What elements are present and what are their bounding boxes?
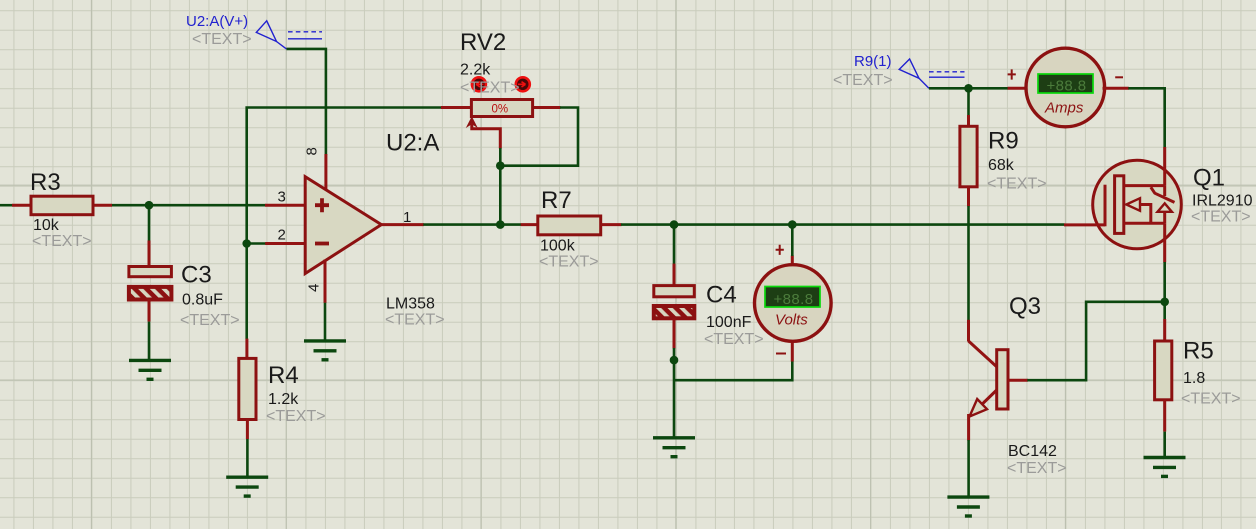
Q3 collector lead [967,320,970,342]
Q1 gate lead [1064,223,1105,226]
voltmeter VM1 [755,265,832,342]
wire: C3 to ground [148,322,151,361]
Q1 drain lead [1163,147,1166,186]
voltmeter digital display +88.8 [765,287,820,308]
wire: RV2 right terminal loop down to wiper node [500,108,578,166]
transistor Q3 BC142 [969,293,1067,477]
svg-text:R4: R4 [268,362,299,389]
wire: voltmeter minus branch [674,361,792,380]
resistor R3 [12,169,112,250]
resistor R9 [960,115,1047,206]
svg-text:R5: R5 [1183,338,1214,365]
wire: ammeter to Q1 drain [1128,88,1164,147]
potentiometer RV2 [441,29,561,149]
Q1 source contact line [1124,222,1165,225]
ground (C4) [653,438,695,457]
Q1 channel bar [1115,176,1124,234]
Q3 base lead [1008,379,1028,382]
svg-text:<TEXT>: <TEXT> [180,312,240,329]
wire: C4 to ground [673,348,676,438]
svg-text:R9(1): R9(1) [854,53,892,70]
svg-text:+88.8: +88.8 [774,291,814,308]
svg-text:100nF: 100nF [706,314,752,331]
wire: node down to R4 [245,244,248,340]
Q1 drain contact line [1124,184,1165,187]
svg-text:100k: 100k [540,238,576,255]
svg-text:<TEXT>: <TEXT> [1191,209,1251,226]
junction: output/wiper node [496,220,505,229]
resistor R4 [239,339,326,439]
capacitor C4 [654,264,764,349]
op-amp pin 4 (GND) stub [324,260,327,303]
svg-text:Amps: Amps [1044,100,1084,117]
svg-text:4: 4 [306,284,323,292]
Q1 body diode [1163,186,1166,196]
ammeter AM1 [1026,48,1105,127]
svg-text:U2:A(V+): U2:A(V+) [186,13,248,30]
voltmeter lead bottom [791,340,794,362]
voltmeter plus marker [776,245,784,255]
non-inverting input + mark [315,198,329,212]
ammeter minus marker [1115,76,1123,78]
svg-text:Q1: Q1 [1193,165,1225,192]
svg-text:IRL2910: IRL2910 [1192,193,1253,210]
inverting input - mark [315,242,329,246]
svg-text:Volts: Volts [775,312,808,329]
junction: wiper node [496,161,505,170]
Q1 gate electrode [1104,185,1107,227]
op-amp U2:A pin 3 lead [265,204,305,207]
wire: node down to C3 [148,205,151,241]
junction: Q1 source / R5 / Q3 base node [1160,298,1169,307]
ammeter plus marker [1008,69,1016,79]
op-amp U2:A pin 2 lead [265,242,305,245]
svg-text:RV2: RV2 [460,29,506,56]
svg-text:<TEXT>: <TEXT> [704,331,764,348]
voltmeter lead top [791,256,794,267]
svg-text:Q3: Q3 [1009,293,1041,320]
wire: input net to R3 [0,204,13,207]
wire: R9 to Q3 collector (crosses gate rail) [967,206,970,320]
wire: op-amp pin 4 to ground [324,303,327,341]
svg-text:<TEXT>: <TEXT> [987,176,1047,193]
svg-text:10k: 10k [33,217,60,234]
Q1 substrate arrow [1126,198,1140,211]
svg-text:R7: R7 [541,187,572,214]
wire: node to pin 2 [247,242,266,245]
svg-text:C3: C3 [181,262,212,289]
transistor Q1 IRL2910 [1064,147,1253,263]
ammeter body circle [1026,48,1105,127]
svg-text:68k: 68k [988,157,1015,174]
ammeter + lead [1008,87,1028,90]
capacitor C3 [129,241,240,330]
svg-text:<TEXT>: <TEXT> [385,312,445,329]
svg-text:8: 8 [304,147,321,155]
junction: C4 node [670,220,679,229]
power flag U2:A(V+) [186,13,322,49]
ammeter - lead [1103,87,1129,90]
RV2 increment button [516,77,530,91]
svg-text:1: 1 [403,209,411,226]
svg-text:U2:A: U2:A [386,130,439,157]
Q1 envelope circle [1093,160,1182,249]
svg-text:2: 2 [278,227,286,244]
svg-text:<TEXT>: <TEXT> [1007,460,1067,477]
op-amp output pin 1 lead [381,223,423,226]
Q1 source lead [1163,223,1166,262]
svg-text:<TEXT>: <TEXT> [32,233,92,250]
wire: feedback riser pin2 node up and right to RV2 [247,108,442,244]
wire: V+ flag to op-amp pin 8 [286,49,326,155]
svg-text:BC142: BC142 [1008,443,1057,460]
wire: output to R7 [423,223,521,226]
svg-text:<TEXT>: <TEXT> [833,72,893,89]
power flag R9(1) [833,53,965,89]
svg-text:<TEXT>: <TEXT> [266,408,326,425]
RV2 decrement button [472,77,486,91]
resistor R7 [521,187,622,271]
svg-text:3: 3 [278,189,286,206]
svg-text:1.8: 1.8 [1183,370,1205,387]
ground (C3) [129,360,171,379]
svg-text:2.2k: 2.2k [460,62,491,79]
svg-text:<TEXT>: <TEXT> [1181,391,1241,408]
op-amp body triangle [305,177,381,274]
svg-text:R9: R9 [988,128,1019,155]
wire: Q3 emitter to ground [967,440,970,497]
svg-text:+88.8: +88.8 [1047,78,1087,95]
wire: R7 to Q1 gate (main rail) [621,223,1065,226]
ground (op-amp) [304,341,346,360]
wire: R3 to op-amp pin 3 [112,204,266,207]
ground (R4) [226,477,268,496]
ground (R5) [1144,458,1186,477]
ammeter digital display +88.8 [1038,74,1093,93]
Q3 base bar [997,350,1008,409]
wire: flag to ammeter + [929,87,1008,90]
wire: rail down to voltmeter + [791,225,794,256]
wire: wiper node down to output node [499,148,502,225]
junction: R3/C3 node [145,201,154,210]
svg-text:R3: R3 [30,169,61,196]
wire: rail down to C4 [673,225,676,264]
wire: R4 to ground [246,439,249,477]
ground (Q3) [947,497,989,516]
junction: voltmeter + node [788,220,797,229]
wire: Q3 base to R5 node [1027,302,1164,380]
op-amp U2:A [304,130,445,329]
wire: Q1 source to R5 node [1163,262,1166,302]
junction: pin 2 / feedback / R4 node [242,239,251,248]
svg-text:LM358: LM358 [386,296,435,313]
junction: C4/voltmeter minus node [670,356,679,365]
svg-text:C4: C4 [706,282,737,309]
svg-text:<TEXT>: <TEXT> [460,80,520,97]
svg-text:0%: 0% [492,104,509,116]
svg-text:1.2k: 1.2k [268,391,299,408]
voltmeter minus marker [776,353,786,355]
wire: R9 top node down [967,88,970,115]
Q3 emitter with arrow [973,390,997,413]
junction: R9 top node [964,84,973,93]
voltmeter body circle [755,265,832,342]
svg-text:<TEXT>: <TEXT> [539,254,599,271]
op-amp U2:A pin 8 (V+) stub [324,154,327,191]
svg-text:0.8uF: 0.8uF [182,292,223,309]
svg-text:<TEXT>: <TEXT> [192,31,252,48]
wire: node down to R5 [1163,302,1166,320]
wire: R5 to ground [1163,432,1166,458]
resistor R5 [1155,319,1241,432]
